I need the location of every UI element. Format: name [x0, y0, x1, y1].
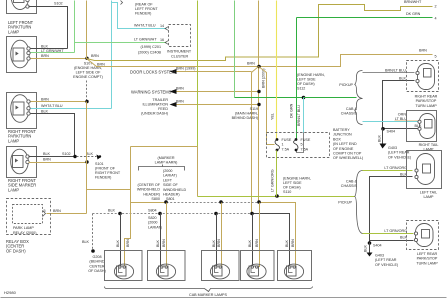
- wire BLK from left front side marker: [29, 7, 68, 49]
- node S804 dot: [158, 212, 162, 216]
- svg-text:(2000: (2000: [163, 169, 172, 173]
- svg-text:G208: G208: [92, 255, 101, 259]
- svg-text:LEFT TAIL: LEFT TAIL: [420, 191, 437, 195]
- label battery junction box: [333, 128, 363, 160]
- labels BLK BRN verticals for drops: [116, 239, 295, 247]
- svg-text:S101: S101: [95, 162, 104, 166]
- svg-text:LAMP HARN): LAMP HARN): [155, 161, 178, 165]
- wire BLK to ground G403: [382, 129, 384, 144]
- bracket marker lamp harn: [139, 165, 185, 171]
- svg-text:WHT/LT BLU: WHT/LT BLU: [41, 104, 63, 108]
- wire BLK line B solid east: [253, 214, 290, 268]
- svg-text:BRN: BRN: [176, 87, 184, 91]
- svg-text:BLK: BLK: [364, 244, 368, 252]
- svg-text:(UNDER DASH): (UNDER DASH): [141, 112, 168, 116]
- cab marker lamp 3 glyph: [210, 264, 229, 279]
- svg-text:5: 5: [44, 209, 46, 213]
- svg-text:H2980: H2980: [4, 290, 17, 295]
- svg-text:OF VEHICLE): OF VEHICLE): [375, 263, 398, 267]
- SECTION: rear lamps: [338, 61, 441, 267]
- wire BLK to ground G403 left: [369, 243, 371, 253]
- node S404 dot 2: [368, 241, 372, 245]
- svg-text:BLK: BLK: [86, 152, 94, 156]
- wire BRN door locks: [177, 71, 252, 73]
- wire BRN drop lamp4: [259, 203, 261, 268]
- svg-text:PARK/STOP: PARK/STOP: [416, 99, 437, 103]
- node line B dot x120: [118, 212, 122, 216]
- cab marker lamp 5 glyph: [284, 264, 303, 279]
- label S112: [297, 73, 325, 91]
- svg-text:ENGINE COMPT): ENGINE COMPT): [73, 75, 103, 79]
- wire LT GRN/WHT to cluster pin 16: [75, 42, 167, 44]
- svg-text:LAMP: LAMP: [423, 195, 434, 199]
- svg-text:2: 2: [435, 5, 437, 9]
- right front park/turn lamp glyph: [11, 95, 31, 123]
- svg-text:CLUSTER: CLUSTER: [171, 55, 189, 59]
- svg-text:G403: G403: [388, 146, 397, 150]
- left front park/turn lamp box: [7, 37, 37, 73]
- svg-text:TRAILER: TRAILER: [152, 98, 168, 102]
- svg-text:ILLUMINATION: ILLUMINATION: [142, 103, 168, 107]
- svg-text:BRN: BRN: [41, 97, 49, 101]
- label left front park/turn lamp: [8, 20, 34, 34]
- svg-text:BLK: BLK: [41, 44, 49, 48]
- svg-text:BRN: BRN: [162, 239, 166, 247]
- wire BLK drop lamp3: [216, 214, 218, 268]
- SECTION: fusebox: [267, 1, 364, 197]
- svg-text:BRN/LT BLU: BRN/LT BLU: [385, 69, 406, 73]
- svg-text:1: 1: [282, 143, 284, 147]
- right front side marker lamp glyph: [11, 149, 30, 174]
- wire fuse 5 output link: [297, 133, 304, 153]
- pin tick 16: [165, 41, 169, 45]
- wire BRN right front side marker: [29, 162, 87, 164]
- label S110: [283, 177, 311, 195]
- svg-text:S804: S804: [148, 209, 157, 213]
- svg-text:S110: S110: [283, 190, 291, 194]
- svg-text:FUSE: FUSE: [301, 138, 311, 142]
- wire DK GRN vertical to fuse 5: [296, 18, 298, 139]
- node line A dot x221: [219, 200, 223, 204]
- wire BLK left rear park/stop lamp: [370, 240, 414, 242]
- wire BRN trunk to pin 5 (lower run): [87, 55, 433, 67]
- svg-text:FUSE: FUSE: [282, 138, 292, 142]
- wire BRN marker harness top run y147: [131, 146, 198, 148]
- svg-text:WINDSHIELD: WINDSHIELD: [137, 188, 160, 192]
- svg-text:LEFT REAR: LEFT REAR: [417, 252, 438, 256]
- wire BRN/LT BLU from S112 down into fusebox: [303, 98, 305, 133]
- relay pin tick: [43, 211, 46, 217]
- fuse 1 symbol: [275, 138, 280, 151]
- svg-text:BLK: BLK: [378, 134, 382, 142]
- node S110 dot: [275, 194, 279, 198]
- svg-text:LT BLU: LT BLU: [395, 117, 407, 121]
- svg-text:BLK: BLK: [248, 239, 252, 247]
- svg-text:DK GRN: DK GRN: [406, 12, 421, 16]
- left tail lamp box: [407, 151, 442, 189]
- node G208 dot: [91, 249, 95, 253]
- label fuse 1: [282, 138, 292, 151]
- node line B dot x216: [214, 212, 218, 216]
- svg-text:OF WHEELWELL): OF WHEELWELL): [333, 156, 363, 160]
- svg-text:(MAIN HARN,: (MAIN HARN,: [235, 112, 258, 116]
- cab marker lamp 2 box: [148, 251, 186, 281]
- svg-text:LEFT SIDE: LEFT SIDE: [283, 181, 302, 185]
- label S804 / S820: [148, 209, 162, 230]
- svg-text:LAMP: LAMP: [423, 148, 434, 152]
- svg-text:G403: G403: [375, 254, 384, 258]
- wire BRN front bus vertical x87 lower: [86, 102, 88, 214]
- arrow door locks: [170, 69, 177, 74]
- wire ORN accent on ORN/LT BLU: [395, 120, 418, 122]
- svg-text:BATTERY: BATTERY: [333, 128, 350, 132]
- label center of windshield header S800: [137, 183, 161, 201]
- svg-text:4: 4: [435, 17, 437, 21]
- wire BLK right front park/turn: [31, 114, 75, 157]
- fuse 5 symbol: [294, 138, 299, 151]
- brace rear left fork: [355, 171, 363, 234]
- svg-text:(CENTER OF: (CENTER OF: [137, 183, 160, 187]
- left front park/turn lamp glyph: [11, 40, 31, 68]
- svg-text:BRN: BRN: [126, 239, 130, 247]
- svg-text:S820: S820: [148, 216, 157, 220]
- wire WHT/LT BLU right front park/turn: [31, 108, 112, 110]
- svg-text:S119: S119: [250, 107, 258, 111]
- svg-text:OF DASH): OF DASH): [297, 82, 315, 86]
- cab marker lamp 2 glyph: [156, 264, 175, 279]
- svg-text:HEADER): HEADER): [163, 193, 180, 197]
- svg-text:5: 5: [301, 143, 303, 147]
- label instrument cluster: [167, 50, 192, 59]
- svg-text:RELAY (2000): RELAY (2000): [13, 231, 36, 235]
- svg-text:COMPT ON TOP: COMPT ON TOP: [333, 152, 362, 156]
- svg-text:BEHIND DASH): BEHIND DASH): [232, 116, 258, 120]
- wire BRN fan right branch: [259, 67, 275, 145]
- svg-text:S404: S404: [387, 130, 396, 134]
- svg-text:S800: S800: [151, 197, 160, 201]
- label right front side marker lamp: [8, 178, 36, 192]
- wire DK GRN to pin 4: [297, 17, 433, 19]
- label S101: [95, 162, 121, 180]
- svg-text:BLK: BLK: [399, 77, 407, 81]
- svg-text:BLK: BLK: [108, 209, 116, 213]
- svg-text:(BEHIND: (BEHIND: [89, 260, 104, 264]
- wire BRN marker bus line A dashed mid: [167, 202, 259, 204]
- wire LT GRN riser x235: [234, 1, 236, 98]
- svg-text:PICKUP: PICKUP: [338, 201, 352, 205]
- wire BLK ground bus line B dashed: [93, 213, 253, 215]
- label park lamp relay: [13, 226, 36, 235]
- right rear park/stop turn lamp dashed box: [407, 61, 439, 92]
- label cab and chassis 2: [341, 180, 358, 189]
- svg-text:BRN: BRN: [255, 239, 259, 247]
- SECTION: cluster: [75, 1, 192, 59]
- wire BRN fan left branch: [252, 67, 259, 214]
- wire BRN 2000 vertical x259: [258, 1, 260, 203]
- svg-text:(REAR OF: (REAR OF: [135, 3, 153, 7]
- wire WHT/LT BLU riser to top: [111, 1, 113, 109]
- svg-text:LT GRN/ORG: LT GRN/ORG: [384, 166, 407, 170]
- label fuse 5: [301, 138, 311, 151]
- wire BRN riser x197.5 lower: [197, 147, 199, 197]
- cab marker lamp 1 glyph: [114, 264, 133, 279]
- svg-text:YEL: YEL: [271, 113, 275, 120]
- label G208: [88, 255, 106, 273]
- wire DK GRN horizontal to S112: [235, 97, 304, 99]
- svg-text:(MARKER: (MARKER: [157, 156, 174, 160]
- cab marker lamp 1 box: [105, 251, 143, 281]
- arrow warning systems: [170, 89, 177, 94]
- svg-text:BRN: BRN: [43, 158, 51, 162]
- wire LT GRN/WHT left front park/turn: [31, 52, 75, 54]
- left front side marker lamp glyph: [11, 0, 29, 10]
- bottom border: [1, 297, 447, 299]
- label S119: [232, 107, 258, 120]
- svg-text:OF DASH): OF DASH): [88, 269, 106, 273]
- svg-text:CAB &: CAB &: [346, 107, 358, 111]
- cab marker lamp 4 box: [241, 251, 275, 281]
- wire LT GRN/ORG riser x197.5 from top: [197, 1, 199, 147]
- wire BRN marker bus line A solid east: [260, 203, 296, 268]
- wire BRN trunk y196: [198, 196, 355, 198]
- node S112 dot: [302, 96, 306, 100]
- svg-text:DK GRN: DK GRN: [290, 103, 294, 118]
- svg-text:CENTER: CENTER: [89, 264, 104, 268]
- svg-text:LEFT: LEFT: [163, 178, 173, 182]
- wire BRN warning systems: [177, 91, 260, 93]
- wire WHT/LT BLU branch to cluster pin 14: [112, 3, 167, 29]
- svg-text:S112: S112: [297, 87, 305, 91]
- svg-text:CAB &: CAB &: [346, 180, 358, 184]
- svg-text:(2000: (2000: [148, 221, 157, 225]
- svg-text:JUNCTION: JUNCTION: [333, 133, 352, 137]
- wire BRN trailer illumination feed: [177, 104, 260, 106]
- right tail lamp box: [407, 111, 437, 142]
- svg-text:WHT/LT BLU: WHT/LT BLU: [134, 24, 156, 28]
- relay outer dashed box: [7, 199, 51, 235]
- svg-text:(ENGINE HARN,: (ENGINE HARN,: [297, 73, 325, 77]
- svg-text:LARIAT): LARIAT): [163, 174, 177, 178]
- SECTION: middle: [87, 0, 437, 214]
- right tail lamp glyph: [418, 114, 435, 139]
- label rear of left front fender: [135, 3, 158, 16]
- svg-text:BRN: BRN: [291, 239, 295, 247]
- wire DK GRN east of S112 to braces: [304, 97, 357, 99]
- wire BLK left front park/turn: [31, 48, 68, 50]
- svg-text:BRN: BRN: [97, 63, 105, 67]
- svg-text:HEADER): HEADER): [143, 192, 160, 196]
- svg-text:BOX: BOX: [333, 137, 341, 141]
- SECTION: markers: [82, 147, 313, 298]
- svg-text:BRN: BRN: [91, 54, 99, 58]
- svg-text:BRN: BRN: [41, 54, 49, 58]
- wire BRN front bus vertical x87 upper: [86, 1, 88, 59]
- svg-text:LEFT FRONT: LEFT FRONT: [135, 7, 158, 11]
- node dot at 259,91.5: [257, 90, 260, 93]
- svg-text:BLK: BLK: [82, 240, 90, 244]
- wire BLK left tail lamp: [370, 177, 413, 243]
- node S141 bracket mark: [121, 1, 123, 5]
- svg-text:BLK: BLK: [43, 152, 51, 156]
- svg-text:(FRONT OF: (FRONT OF: [95, 167, 116, 171]
- label S107 engine harn: [73, 62, 103, 80]
- svg-text:CHASSIS: CHASSIS: [341, 112, 358, 116]
- svg-text:LEFT SIDE: LEFT SIDE: [297, 78, 316, 82]
- wire LT GRN/ORG from fuse 1 to S110: [276, 151, 278, 197]
- svg-text:FEED: FEED: [158, 107, 168, 111]
- svg-text:OF VEHICLE): OF VEHICLE): [388, 155, 411, 159]
- label 2000 lariat left side windshield header S801: [163, 169, 186, 201]
- wire YEL into fuse 1: [276, 1, 278, 139]
- node splice fan at 259,66.5: [257, 65, 261, 69]
- svg-text:S801: S801: [166, 197, 175, 201]
- node S404 dot: [381, 127, 385, 131]
- svg-text:WINDSHIELD: WINDSHIELD: [163, 188, 186, 192]
- node line B dot x252: [250, 212, 254, 216]
- svg-text:RIGHT FRONT: RIGHT FRONT: [95, 171, 121, 175]
- svg-text:INSTRUMENT: INSTRUMENT: [167, 50, 192, 54]
- svg-text:LEFT SIDE OF: LEFT SIDE OF: [76, 71, 101, 75]
- wire LT GRN/WHT vertical riser to top: [74, 1, 76, 53]
- svg-text:7.5A: 7.5A: [282, 147, 290, 151]
- svg-text:PARK LAMP: PARK LAMP: [13, 226, 34, 230]
- svg-text:7.5A: 7.5A: [301, 147, 309, 151]
- svg-text:(LEFT REAR: (LEFT REAR: [375, 258, 397, 262]
- label left rear park/stop turn lamp: [416, 252, 438, 265]
- node S102 splice dot: [73, 155, 76, 158]
- wire ORN/LT BLU to right tail lamp: [363, 121, 418, 123]
- svg-text:LT GRN/WHT: LT GRN/WHT: [134, 38, 157, 42]
- wire BLK dashed to G208: [92, 214, 94, 251]
- wire BRN bus corner to marker harness riser: [87, 147, 131, 190]
- left rear park/stop turn lamp glyph: [414, 224, 433, 247]
- svg-text:BRN (1999): BRN (1999): [176, 67, 195, 71]
- right front park/turn lamp box: [7, 93, 37, 129]
- svg-text:DOOR LOCKS SYSTEM: DOOR LOCKS SYSTEM: [130, 70, 176, 75]
- wire BRN drop lamp3: [221, 203, 223, 268]
- label marker lamp harn: [155, 156, 178, 165]
- ground G403 right: [380, 144, 387, 149]
- cab marker lamp 3 box: [202, 251, 240, 281]
- node line A dot x259: [257, 200, 261, 204]
- left rear park/stop turn lamp dashed box: [407, 221, 439, 250]
- ground G403 left: [367, 253, 373, 257]
- wire LT GRN/ORG to left tail lamp: [363, 170, 413, 172]
- svg-text:CHASSIS: CHASSIS: [341, 184, 358, 188]
- svg-text:WARNING SYSTEMS: WARNING SYSTEMS: [131, 90, 172, 95]
- node splice dot on BRN at x87: [85, 57, 88, 60]
- pin tick 14: [165, 27, 169, 31]
- label relay box: [6, 239, 29, 253]
- battery junction box dashed box: [267, 133, 330, 158]
- svg-text:LAMP: LAMP: [8, 29, 19, 34]
- svg-text:PICKUP: PICKUP: [339, 83, 353, 87]
- node S119 dot: [257, 103, 260, 106]
- wire LT GRN/ORG to left rear park/stop lamp: [363, 233, 414, 235]
- right front side marker lamp box: [7, 147, 37, 178]
- svg-text:14: 14: [160, 24, 164, 28]
- svg-text:S404: S404: [373, 244, 382, 248]
- svg-text:BRN: BRN: [247, 62, 255, 66]
- wire BLK drop lamp1: [120, 214, 122, 268]
- wire BLK right tail lamp: [383, 128, 418, 130]
- svg-text:TURN LAMP: TURN LAMP: [415, 104, 437, 108]
- svg-text:LAMP: LAMP: [8, 187, 19, 192]
- svg-text:SIDE OF: SIDE OF: [163, 183, 178, 187]
- wire BLK right front side marker: [29, 156, 75, 158]
- svg-text:LAMP: LAMP: [8, 138, 19, 143]
- label right front park/turn lamp: [8, 129, 36, 143]
- svg-text:OF DASH): OF DASH): [283, 186, 301, 190]
- svg-text:OF ENGINE: OF ENGINE: [333, 147, 354, 151]
- svg-text:5: 5: [435, 55, 437, 59]
- svg-text:BLK: BLK: [212, 239, 216, 247]
- svg-text:S102: S102: [54, 2, 63, 6]
- cab marker lamp 5 box: [278, 251, 312, 281]
- svg-text:BLK: BLK: [285, 239, 289, 247]
- svg-text:LARIAT): LARIAT): [148, 225, 162, 229]
- svg-text:FENDER): FENDER): [135, 12, 151, 16]
- label left tail lamp: [420, 191, 437, 200]
- wire BRN relay feed: [47, 213, 87, 215]
- svg-text:S102: S102: [62, 152, 71, 156]
- wire BRN left front park/turn: [31, 58, 87, 60]
- label trailer illumination feed: [141, 98, 168, 116]
- wire BLK dashed to S101: [77, 156, 97, 158]
- svg-text:(2000) C240B: (2000) C240B: [138, 51, 161, 55]
- wire BLK right rear park/stop lamp: [383, 81, 415, 129]
- svg-text:BRN: BRN: [176, 100, 184, 104]
- wire BRN drop lamp2: [166, 203, 168, 268]
- svg-text:RIGHT REAR: RIGHT REAR: [415, 95, 438, 99]
- svg-text:BRN: BRN: [217, 239, 221, 247]
- bracket cab marker lamps: [105, 287, 313, 292]
- wire BRN right front park/turn: [31, 101, 87, 103]
- node splice dot x87 y101.5: [85, 100, 88, 103]
- label cab and chassis 1: [341, 107, 358, 116]
- svg-text:RIGHT TAIL: RIGHT TAIL: [419, 143, 439, 147]
- left front side marker lamp (cut at top) box: [7, 0, 37, 14]
- wire dashed splice link S107: [86, 81, 88, 101]
- node S800 dot: [164, 200, 168, 204]
- wire BRN marker bus line A solid west: [131, 147, 167, 203]
- svg-text:BLK: BLK: [156, 239, 160, 247]
- svg-text:BRN/LT BLU: BRN/LT BLU: [297, 105, 301, 126]
- svg-text:FENDER): FENDER): [95, 176, 111, 180]
- brace cab chassis group 1: [355, 99, 363, 125]
- svg-text:(ENGINE HARN,: (ENGINE HARN,: [283, 177, 311, 181]
- node S101 arrow dot: [97, 155, 102, 160]
- svg-text:(IN LEFT END: (IN LEFT END: [333, 142, 357, 146]
- label connector C201 / C240B: [138, 45, 161, 55]
- svg-text:BRN: BRN: [419, 49, 427, 53]
- svg-text:BLK: BLK: [116, 239, 120, 247]
- svg-text:BRN: BRN: [53, 209, 61, 213]
- label right tail lamp: [419, 143, 439, 152]
- instrument cluster dashed box: [169, 25, 191, 47]
- svg-text:16: 16: [160, 38, 164, 42]
- svg-text:LT GRN/WHT: LT GRN/WHT: [41, 49, 64, 53]
- svg-text:(1999) C201: (1999) C201: [141, 45, 162, 49]
- wire BLK drop lamp2: [160, 214, 162, 268]
- right rear park/stop turn lamp glyph: [416, 64, 435, 90]
- node splice dot x87 y162: [85, 160, 88, 163]
- svg-text:LT GRN/ORG: LT GRN/ORG: [384, 229, 407, 233]
- cab marker lamp 4 glyph: [247, 264, 266, 279]
- park lamp relay inner dashed box: [13, 205, 43, 224]
- left tail lamp glyph: [415, 154, 435, 185]
- svg-text:OF DASH): OF DASH): [6, 248, 26, 253]
